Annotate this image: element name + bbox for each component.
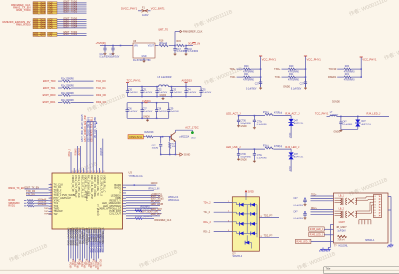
C12 value label: [100, 53, 105, 56]
ground: [238, 125, 240, 126]
node: [160, 136, 162, 138]
bottom diode: [245, 241, 249, 245]
U3 right pin: [123, 213, 127, 215]
capacitor label: [169, 108, 174, 110]
U3 top pin wire: [76, 146, 78, 173]
svg-text:0.1uF/50V: 0.1uF/50V: [143, 111, 153, 113]
capacitor C28: [160, 137, 162, 144]
port pin wire: [57, 10, 87, 12]
svg-text:PD11R: PD11R: [94, 261, 96, 268]
wire TX_EN row: [25, 188, 49, 190]
svg-text:RMII_TXD4: RMII_TXD4: [34, 28, 46, 30]
svg-text:RD-_2: RD-_2: [203, 231, 211, 234]
resistor designator: [289, 65, 294, 68]
rx series resistor row: [8, 199, 15, 202]
pin number: [50, 186, 51, 188]
resistor value label: [38, 199, 47, 201]
capacitor C45: [340, 116, 342, 122]
resistor value: [344, 80, 356, 82]
svg-text:1/R2balR: 1/R2balR: [38, 199, 47, 201]
capacitor C33: [171, 86, 173, 88]
power flag 3V3_T0: [158, 27, 168, 31]
svg-text:3: 3: [87, 171, 88, 173]
capacitor C36: [238, 116, 240, 120]
U3 bottom pin wire: [84, 229, 86, 259]
port cell A: [33, 12, 46, 14]
pin number: [84, 171, 85, 173]
DNP label 2: [135, 208, 153, 210]
capacitor label: [157, 108, 162, 110]
net label WDD+Ch: [168, 196, 179, 199]
array right rail: [256, 205, 258, 238]
ground: [260, 87, 262, 88]
net label: [151, 193, 163, 196]
pin number: [228, 201, 230, 203]
net labels module left: [311, 194, 317, 196]
net flag ACT_LED: [185, 125, 198, 129]
module left pin wire: [311, 213, 334, 215]
svg-text:H1102NL: H1102NL: [339, 246, 349, 248]
net label vertical navy: [100, 235, 102, 253]
resistor value: [243, 72, 255, 74]
svg-text:TD2_P?: TD2_P?: [264, 234, 273, 237]
net label left lower: [44, 208, 49, 210]
pin number: [87, 171, 88, 173]
capacitor C37: [253, 116, 255, 120]
capacitor label: [142, 90, 147, 92]
port cell B: [48, 23, 58, 25]
port cell A: [33, 2, 46, 4]
svg-text:PD8R: PD8R: [87, 261, 89, 267]
port cell B: [48, 2, 58, 4]
svg-text:RMII_05?: RMII_05?: [151, 213, 162, 216]
svg-text:3GND0: 3GND0: [332, 101, 341, 104]
net label XTAL vertical: [68, 148, 71, 156]
svg-text:3: 3: [97, 171, 98, 173]
net label vertical red: [96, 262, 98, 270]
svg-text:R16: R16: [159, 40, 164, 43]
net label WDD-Dwn: [168, 199, 180, 202]
capacitor C36 label: [240, 154, 246, 156]
gnd rail: [357, 126, 359, 129]
gnd rail: [127, 117, 169, 119]
U3 right pin: [123, 210, 127, 212]
net label: [151, 182, 158, 185]
svg-text:GND0: GND0: [283, 85, 290, 88]
svg-text:L5 1uH/600R: L5 1uH/600R: [158, 76, 172, 79]
net label: [26, 193, 35, 196]
net flag RJ4_LED_J: [285, 145, 300, 149]
net label: [149, 187, 160, 190]
net label: [203, 202, 211, 205]
node: [174, 45, 176, 47]
svg-text:E50T_TXD5: E50T_TXD5: [64, 11, 78, 14]
U3 interior pin names right: [114, 184, 121, 187]
power flag DGA12: [188, 42, 200, 46]
title block: [324, 267, 399, 274]
capacitor value label: [255, 83, 260, 86]
power rail wire: [260, 56, 262, 87]
svg-text:5: 5: [50, 194, 51, 196]
module termination resistor: [338, 235, 347, 237]
U3 right pin: [123, 202, 127, 204]
net label: [64, 25, 78, 28]
net label vertical red: [87, 261, 89, 267]
net label: [26, 190, 36, 193]
net label vertical red: [73, 261, 75, 267]
svg-text:470R(u): 470R(u): [274, 113, 282, 115]
svg-text:R15: R15: [177, 40, 182, 43]
capacitor C39: [168, 103, 170, 110]
net label: [230, 76, 236, 79]
svg-text:CLK_25M_OUT_S: CLK_25M_OUT_S: [99, 175, 102, 196]
net label left lower: [44, 211, 49, 213]
wire: [290, 149, 292, 152]
U3 interior pin names left: [54, 183, 64, 186]
U3 right pin: [123, 187, 127, 189]
capacitor C38: [156, 102, 158, 104]
ground: [112, 53, 114, 54]
port cell A: [33, 19, 46, 21]
port pin wire: [57, 35, 87, 37]
svg-text:AVD18: AVD18: [78, 148, 81, 156]
wire: [239, 115, 266, 117]
net label vertical: [95, 117, 97, 138]
net label vertical red: [71, 259, 73, 265]
svg-text:TD0+: TD0+: [229, 68, 236, 71]
svg-text:RTAL2_IN: RTAL2_IN: [149, 187, 160, 190]
resistor R15: [177, 44, 185, 46]
port row text: [34, 3, 46, 5]
svg-text:0.1uF/6R0: 0.1uF/6R0: [257, 157, 268, 159]
ground: [143, 116, 150, 119]
svg-text:0.1uF/50V: 0.1uF/50V: [100, 56, 111, 58]
svg-text:XTAL_IN_25M_CLK: XTAL_IN_25M_CLK: [77, 175, 80, 198]
TVS diode: [289, 152, 294, 156]
port cell A: [33, 4, 46, 6]
net label vertical red: [82, 262, 84, 268]
port cell B: [48, 34, 58, 36]
U3 top pin wire: [73, 168, 75, 173]
svg-text:C?3x: C?3x: [257, 155, 263, 157]
power flag VCC_PHY1: [262, 57, 277, 61]
pin number: [100, 171, 101, 173]
svg-text:9: 9: [50, 205, 51, 207]
svg-text:2V02: 2V02: [289, 165, 291, 171]
net label vertical navy: [91, 235, 93, 253]
port row text B: [48, 25, 53, 28]
power flag VCC_PHY1: [307, 57, 322, 61]
svg-text:0.1uF/6B3: 0.1uF/6B3: [342, 124, 353, 126]
svg-text:100pF/6R0: 100pF/6R0: [240, 123, 251, 125]
port pin wire: [57, 19, 87, 21]
svg-text:R21: R21: [244, 73, 249, 76]
RJ45 inner connector body: [374, 195, 382, 218]
svg-text:GND0: GND0: [240, 126, 247, 128]
L5 value label: [158, 76, 172, 79]
U3 left pin: [49, 197, 52, 199]
svg-text:75R x4: 75R x4: [337, 240, 345, 242]
port pin wire: [57, 4, 87, 6]
svg-text:3: 3: [94, 171, 95, 173]
svg-text:C?36: C?36: [240, 154, 246, 156]
port cell B: [48, 6, 58, 8]
svg-text:RMII_TXD1: RMII_TXD1: [34, 35, 46, 37]
U3 top pin wire: [92, 122, 94, 173]
net name flag: [3, 20, 31, 24]
U3 bottom pin wire: [93, 229, 95, 260]
transformer winding LB_2: [339, 209, 345, 211]
U3 right pin wire: [126, 197, 160, 199]
C16 value label: [188, 48, 193, 51]
wire: [153, 136, 172, 138]
resistor designator: [345, 65, 350, 68]
R16 label: [159, 40, 164, 43]
net label: [151, 200, 162, 203]
series resistor row: [43, 93, 56, 97]
svg-text:4B_GND?: 4B_GND?: [336, 227, 347, 229]
port pin wire: [57, 25, 87, 27]
net label: [203, 221, 211, 224]
port cell B: [48, 21, 58, 23]
resistor value: [344, 72, 356, 74]
wire: [290, 116, 292, 119]
rx series resistor row: [8, 205, 15, 208]
svg-text:TD-_2: TD-_2: [203, 211, 210, 214]
svg-text:RJ45_LED_J: RJ45_LED_J: [310, 235, 323, 237]
resistor pullup: [282, 76, 289, 78]
pin number: [75, 171, 76, 173]
net label vertical: [289, 132, 291, 138]
ground: [304, 217, 306, 218]
port row text: [34, 24, 46, 26]
net label 4B_GND: [336, 227, 347, 229]
D5 right pin wire: [259, 236, 279, 238]
pin number: [50, 213, 52, 215]
svg-text:GND0: GND0: [160, 94, 167, 97]
net label: [274, 68, 281, 71]
svg-text:XTAL_OUT_25M_C: XTAL_OUT_25M_C: [74, 175, 77, 198]
port row text B: [48, 2, 53, 5]
wire TXD0 row: [26, 192, 49, 194]
C45 label: [342, 122, 347, 124]
svg-text:0.1uF/50V: 0.1uF/50V: [201, 92, 211, 94]
svg-text:(R)bead: (R)bead: [159, 43, 168, 45]
bottom rail: [161, 154, 177, 156]
svg-text:PD5R: PD5R: [80, 261, 82, 267]
svg-text:E50_REF25_CLK_SEL1: E50_REF25_CLK_SEL1: [92, 116, 94, 141]
svg-text:R2x 22R0R0: R2x 22R0R0: [61, 93, 75, 95]
transformer T1 module body: [334, 193, 389, 243]
U3 left pin: [49, 194, 52, 196]
module left pin wire: [311, 209, 334, 211]
net label vertical red: [94, 261, 96, 268]
resistor value label: [61, 86, 75, 88]
pin number: [81, 171, 82, 173]
node: [340, 116, 342, 118]
port row text: [34, 5, 46, 7]
series resistor row: [43, 79, 56, 83]
wire down: [290, 126, 292, 138]
svg-text:RJ45_LED_J: RJ45_LED_J: [297, 242, 310, 244]
resistor R33: [265, 147, 273, 149]
port row text B: [48, 12, 53, 15]
net flag box RJ45 LED: [309, 227, 324, 231]
svg-text:R21: R21: [345, 73, 350, 76]
svg-text:0.1uF/50V: 0.1uF/50V: [186, 92, 196, 94]
net label: [64, 5, 78, 8]
U3 left pin: [49, 213, 52, 215]
U3 part number: [129, 175, 143, 178]
svg-text:QFN32_L4: QFN32_L4: [97, 204, 100, 216]
port pin wire: [57, 21, 87, 23]
U3 right pin wire: [126, 212, 162, 214]
net name flag: [13, 6, 30, 10]
net label: [64, 11, 78, 14]
net label: [151, 208, 163, 211]
wire TXD1 row: [26, 195, 49, 197]
svg-text:47R/5%R0: 47R/5%R0: [243, 80, 255, 82]
pin number: [228, 230, 230, 232]
port pin wire: [57, 8, 87, 10]
D5 left pin wire: [214, 211, 233, 213]
power flag VCC_PHY1: [362, 57, 377, 61]
collector wire: [175, 130, 177, 132]
ground: [174, 53, 176, 54]
svg-text:MDIO/MDC_S: MDIO/MDC_S: [102, 227, 105, 243]
chassis ground: [322, 248, 324, 250]
svg-text:R20: R20: [244, 65, 249, 68]
svg-text:0.1uF/2kV: 0.1uF/2kV: [293, 218, 303, 220]
net label vertical: [92, 116, 94, 141]
node: [134, 184, 136, 186]
array center rail: [246, 205, 248, 234]
port pin wire: [57, 6, 87, 8]
port row text B: [48, 18, 53, 21]
wire: [155, 45, 159, 47]
resistor value label: [61, 93, 75, 95]
net label vertical: [88, 116, 90, 141]
wire: [143, 136, 145, 138]
net label vertical: [101, 147, 103, 155]
net label vertical: [78, 148, 81, 156]
net label: [151, 198, 165, 201]
U3 top pin wire: [80, 146, 82, 173]
pin number: [97, 171, 98, 173]
capacitor label: [128, 90, 133, 92]
svg-text:TXL_D1: TXL_D1: [26, 193, 35, 196]
net label: [140, 205, 150, 208]
U3 right pin wire: [126, 195, 160, 197]
base resistor R27: [169, 137, 171, 142]
svg-text:R?(u): R?(u): [263, 112, 269, 114]
svg-text:7: 7: [50, 199, 51, 201]
net label RMII2REF_CLK: [154, 219, 171, 222]
power flag DVCC right: [332, 101, 341, 104]
port cell B: [48, 25, 58, 27]
node: [96, 122, 98, 124]
net flag box RJ45 LED: [309, 232, 324, 236]
port row text: [34, 11, 46, 13]
svg-text:SRV05-4: SRV05-4: [233, 255, 243, 258]
net label: [140, 211, 158, 214]
ground: [304, 203, 306, 204]
U6 designator: [133, 40, 137, 43]
svg-text:6: 6: [50, 197, 51, 199]
port cell A: [33, 6, 46, 8]
svg-text:R?(u,u)_(R)DNPB: R?(u,u)_(R)DNPB: [135, 216, 153, 218]
svg-text:WDD-Dwn: WDD-Dwn: [168, 199, 180, 202]
svg-text:TRFBN: TRFBN: [44, 214, 52, 216]
port cell B: [48, 4, 58, 6]
net flag: [96, 100, 107, 104]
svg-text:R?(u,u)_(R)DNPB: R?(u,u)_(R)DNPB: [135, 208, 153, 210]
resistor value label: [38, 204, 47, 206]
svg-text:OPEN 8211: OPEN 8211: [129, 136, 143, 139]
svg-text:2V02: 2V02: [289, 132, 291, 138]
net name flag: [16, 22, 31, 26]
U3 bottom pin wire: [68, 229, 70, 262]
svg-text:RD+_2: RD+_2: [203, 221, 211, 224]
port row text: [34, 35, 46, 37]
U3 right pin wire: [126, 189, 154, 191]
net label: [203, 231, 211, 234]
net label: [64, 7, 78, 10]
net label: [64, 23, 78, 26]
net label vertical red: [89, 262, 91, 268]
fuse F1: [138, 10, 142, 12]
svg-text:3: 3: [103, 171, 104, 173]
svg-text:R2x 22R0R0: R2x 22R0R0: [61, 100, 75, 102]
U3 bottom pin wire: [81, 229, 83, 262]
svg-text:PD6R: PD6R: [82, 262, 84, 268]
D5 left pin wire: [214, 221, 233, 223]
pin number: [50, 199, 51, 201]
svg-text:C16: C16: [188, 48, 193, 51]
U3 right pin: [123, 208, 127, 210]
svg-text:PD7R: PD7R: [85, 259, 87, 265]
ground: [185, 53, 187, 54]
resistor designator: [345, 73, 350, 76]
svg-text:R21: R21: [289, 73, 294, 76]
power arrow: [245, 190, 247, 193]
port row text B: [48, 8, 53, 11]
svg-text:104(R): 104(R): [152, 148, 159, 150]
pin number: [103, 171, 104, 173]
TVS label: [294, 121, 299, 123]
rx series resistor row: [8, 202, 20, 205]
wire: [324, 228, 333, 230]
svg-text:3: 3: [50, 189, 51, 191]
ground arrow flag: [176, 153, 182, 156]
resistor value label: [61, 79, 75, 81]
svg-text:3: 3: [75, 171, 76, 173]
pin number: [261, 236, 263, 238]
diode row wires: [232, 202, 236, 204]
svg-text:PD2R: PD2R: [73, 261, 75, 267]
module internal routing: [357, 197, 374, 213]
capacitor C16: [185, 46, 187, 49]
port cell A: [33, 32, 46, 34]
svg-text:3: 3: [72, 171, 73, 173]
node: [238, 115, 240, 117]
D5 left pin wire: [214, 202, 233, 204]
svg-text:VIN: VIN: [134, 46, 138, 48]
svg-text:REF_CLK_SEL_25M: REF_CLK_SEL_25M: [90, 175, 93, 199]
resistor R26: [146, 136, 153, 138]
net label: [64, 33, 78, 36]
svg-text:GBD_LR3B: GBD_LR3B: [151, 203, 164, 206]
